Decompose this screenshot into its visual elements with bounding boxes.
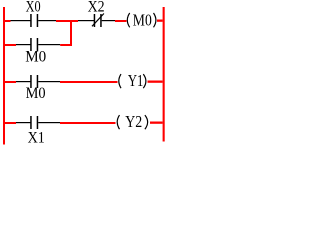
wire rung2 black after contact [38, 81, 60, 82]
svg-text:Y2: Y2 [125, 112, 142, 131]
contact M0 (rung2) [30, 75, 38, 88]
contact X0 [30, 14, 38, 27]
wire rung2 red coil to right rail [148, 81, 163, 83]
svg-text:X1: X1 [28, 130, 45, 146]
coil Y1 right paren [143, 74, 146, 88]
wire rung3 black after contact [38, 122, 60, 123]
branch vertical red wire [70, 20, 72, 46]
right power rail [163, 7, 165, 142]
wire rung3 red stub from left rail [5, 122, 17, 124]
wire rung1 black to X0 [11, 20, 31, 21]
wire branch red to junction [60, 44, 72, 46]
wire rung1 black X0 to node [38, 20, 56, 21]
wire rung1 red into coil [115, 20, 127, 22]
wire rung1 black to X2 [78, 20, 94, 21]
wire rung1 red coil to right rail [157, 20, 163, 22]
wire rung3 red to coil Y2 [60, 122, 116, 124]
contact X1 [30, 116, 38, 129]
svg-text:M0: M0 [26, 85, 46, 102]
wire rung1 black X2 to coil [102, 20, 115, 21]
wire rung1 red stub from left rail [5, 20, 11, 22]
wire rung1 red energized segment over branch junction [56, 20, 78, 22]
svg-text:X2: X2 [88, 0, 105, 16]
svg-text:Y1: Y1 [128, 71, 144, 90]
wire rung2 red to coil Y1 [60, 81, 118, 83]
coil M0 right paren [154, 13, 156, 27]
wire branch red stub from left rail [5, 44, 17, 46]
svg-text:M0: M0 [133, 10, 152, 29]
left power rail [3, 7, 5, 145]
wire rung3 black to X1 contact [16, 122, 31, 123]
wire rung2 red stub from left rail [5, 81, 17, 83]
wire rung3 red coil to right rail [150, 122, 163, 124]
coil Y1 left paren [119, 74, 121, 88]
coil M0 left paren [127, 13, 129, 27]
wire branch black after contact [38, 44, 60, 45]
wire rung2 black to M0 contact [16, 81, 31, 82]
contact M0 (branch) [30, 38, 38, 51]
wire branch black to M0 contact [16, 44, 31, 45]
coil Y2 right paren [145, 115, 148, 129]
svg-text:X0: X0 [26, 0, 41, 16]
contact X2 (NC) [92, 14, 104, 28]
coil Y2 left paren [117, 115, 119, 129]
svg-text:M0: M0 [25, 49, 46, 66]
